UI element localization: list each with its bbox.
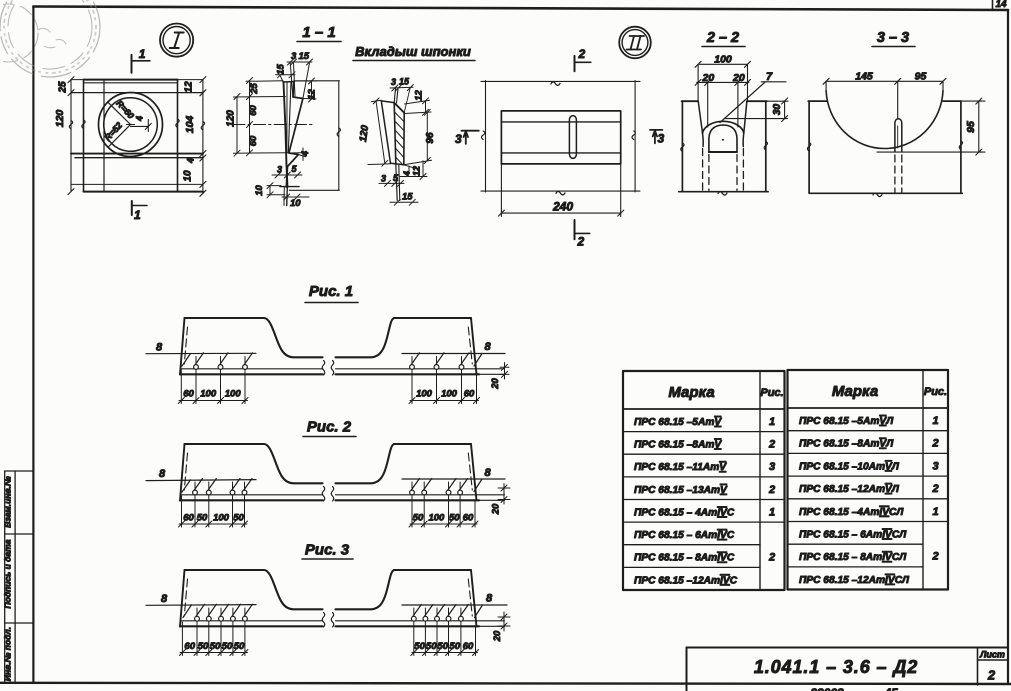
view I marker circle <box>160 23 193 56</box>
section cut mark 2 top <box>575 56 591 71</box>
svg-text:20: 20 <box>702 72 715 84</box>
svg-text:Лист: Лист <box>979 650 1005 660</box>
svg-text:1: 1 <box>134 208 141 222</box>
svg-text:3: 3 <box>381 174 386 184</box>
svg-text:Рис.: Рис. <box>924 386 947 398</box>
svg-text:30: 30 <box>772 104 783 116</box>
svg-text:8: 8 <box>485 341 492 353</box>
section cut mark 1 top <box>132 55 150 73</box>
left dim 25 60 60 of 1-1 <box>234 78 289 156</box>
svg-text:4: 4 <box>300 151 310 157</box>
svg-text:1: 1 <box>932 415 938 427</box>
svg-text:60: 60 <box>464 389 475 400</box>
svg-text:50: 50 <box>426 641 437 652</box>
svg-text:4: 4 <box>186 158 196 164</box>
right table grid <box>788 370 949 590</box>
svg-text:3 – 3: 3 – 3 <box>877 30 909 46</box>
Рис.1 right rebar circles <box>410 353 482 370</box>
svg-text:Инв.№ подл.: Инв.№ подл. <box>3 627 13 681</box>
dim 12 lower right of insert <box>400 161 427 180</box>
svg-text:100: 100 <box>213 513 230 524</box>
bottom dims 3 5 of 1-1 <box>272 172 302 178</box>
Рис.2 right leader 8 <box>402 478 505 480</box>
svg-text:15: 15 <box>299 51 310 62</box>
svg-text:1 – 1: 1 – 1 <box>302 24 335 41</box>
svg-text:50: 50 <box>449 641 460 652</box>
svg-text:3: 3 <box>291 51 297 62</box>
svg-text:2: 2 <box>768 439 775 451</box>
svg-text:100: 100 <box>714 54 732 66</box>
hole circles R60 R52 <box>99 93 163 157</box>
svg-text:10: 10 <box>290 198 301 209</box>
svg-text:240: 240 <box>552 200 573 214</box>
svg-text:ПРС 68.15 –5АтV: ПРС 68.15 –5АтV <box>634 417 722 428</box>
right table rows <box>799 415 939 586</box>
svg-text:Вкладыш шпонки: Вкладыш шпонки <box>355 44 471 59</box>
svg-text:8: 8 <box>486 593 493 605</box>
Рис.2 right dims 50 100 50 60 <box>409 482 478 527</box>
svg-text:3: 3 <box>658 132 665 146</box>
Рис.1 slab outline <box>180 318 505 375</box>
svg-text:120: 120 <box>358 124 371 142</box>
svg-text:104: 104 <box>184 116 196 134</box>
break marks on plate edges <box>69 119 204 130</box>
svg-text:20: 20 <box>492 630 503 642</box>
svg-text:ПРС 68.15 –8АтVЛ: ПРС 68.15 –8АтVЛ <box>799 439 894 450</box>
leader 7 of 2-2 <box>720 82 786 123</box>
Рис.3 right rebar circles <box>411 605 482 622</box>
svg-text:50: 50 <box>210 641 221 652</box>
dim 95 right of 3-3 <box>961 98 985 155</box>
Рис.3 slab outline <box>180 570 505 627</box>
dim 15 bottom of insert <box>390 199 418 205</box>
svg-text:14: 14 <box>995 0 1007 10</box>
Рис.1 left rebar circles <box>182 353 253 370</box>
svg-text:50: 50 <box>222 641 233 652</box>
left table grid <box>623 371 785 590</box>
Рис.3 right dims 50 50 50 50 60 <box>411 608 479 656</box>
svg-text:95: 95 <box>965 121 977 133</box>
svg-text:12: 12 <box>414 90 425 101</box>
svg-text:2: 2 <box>931 483 938 495</box>
centerline 1-1 <box>233 124 312 126</box>
svg-text:Марка: Марка <box>668 384 714 401</box>
svg-text:8: 8 <box>159 468 166 480</box>
svg-text:50: 50 <box>198 641 209 652</box>
section cut mark 2 bottom <box>575 220 590 239</box>
svg-text:ПРС 68.15 –12АтIVС: ПРС 68.15 –12АтIVС <box>634 575 738 586</box>
Рис.3 left leader 8 <box>146 604 256 607</box>
svg-text:ПРС 68.15 – 6АтIVС: ПРС 68.15 – 6АтIVС <box>634 530 735 541</box>
svg-text:1: 1 <box>139 47 146 61</box>
svg-text:Рис. 2: Рис. 2 <box>307 419 352 436</box>
svg-text:3: 3 <box>769 461 775 473</box>
svg-text:50: 50 <box>414 641 425 652</box>
svg-text:ПРС 68.15 –8АтV: ПРС 68.15 –8АтV <box>634 440 722 451</box>
svg-text:ПРС 68.15 – 8АтIVСЛ: ПРС 68.15 – 8АтIVСЛ <box>799 552 907 563</box>
svg-text:60: 60 <box>248 105 259 116</box>
svg-text:Рис. 3: Рис. 3 <box>305 542 350 559</box>
svg-text:60: 60 <box>463 641 474 652</box>
svg-text:95: 95 <box>915 71 927 83</box>
svg-text:1: 1 <box>769 416 775 428</box>
svg-text:Рис. 1: Рис. 1 <box>309 283 353 300</box>
svg-text:2 – 2: 2 – 2 <box>706 30 739 46</box>
corner stamp (faint seal) <box>0 0 100 77</box>
mini dim 4 at hole center <box>127 120 152 132</box>
svg-text:100: 100 <box>200 389 217 400</box>
plate of view II <box>501 111 620 164</box>
dim 120 of insert <box>368 98 391 166</box>
Рис.3 dim 20 right <box>498 612 510 631</box>
svg-text:2: 2 <box>931 438 938 450</box>
svg-text:60: 60 <box>463 513 474 524</box>
section cut mark 1 bottom <box>132 201 147 215</box>
top dims 145 95 of 3-3 <box>823 78 946 118</box>
svg-text:Подпись и дата: Подпись и дата <box>3 539 13 608</box>
svg-text:8: 8 <box>485 467 492 479</box>
Рис.1 left leader 8 <box>146 352 256 354</box>
svg-text:ПРС 68.15 –10АтVЛ: ПРС 68.15 –10АтVЛ <box>799 461 900 472</box>
left dim 10 of 1-1 <box>267 183 285 198</box>
right dim line 12 104 4 10 <box>200 77 206 197</box>
svg-text:12: 12 <box>184 81 195 93</box>
dim 12 right top of insert <box>405 98 432 116</box>
section cut mark 3 left <box>462 131 479 144</box>
Рис.1 right leader 8 <box>402 353 505 355</box>
Рис.2 left rebar circles <box>182 479 252 495</box>
bowl recess of 3-3 <box>826 91 943 149</box>
svg-text:1: 1 <box>769 507 775 519</box>
svg-text:2: 2 <box>577 235 585 249</box>
Рис.1 left dims 60 100 100 <box>178 357 248 404</box>
svg-text:7: 7 <box>766 71 773 83</box>
bowl bottom line of 3-3 <box>877 151 985 153</box>
svg-text:1: 1 <box>932 506 938 518</box>
section 1-1 profile <box>280 82 303 206</box>
svg-text:8: 8 <box>156 342 163 354</box>
svg-text:R=52: R=52 <box>102 120 124 143</box>
svg-text:120: 120 <box>54 110 66 128</box>
dim 4 small of insert <box>404 165 418 174</box>
right dim 12 of 1-1 <box>295 78 317 102</box>
Рис.3 right leader 8 <box>402 604 507 606</box>
svg-text:50: 50 <box>197 513 208 524</box>
outer extent lines of view II <box>481 81 640 195</box>
svg-text:20: 20 <box>732 72 745 84</box>
svg-text:100: 100 <box>441 389 458 400</box>
slot of 3-3 <box>895 119 902 152</box>
svg-text:100: 100 <box>225 389 242 400</box>
svg-text:50: 50 <box>413 513 424 524</box>
bottom dim 10 of 1-1 <box>282 194 309 200</box>
svg-text:Марка: Марка <box>832 383 878 400</box>
svg-text:15: 15 <box>399 77 410 87</box>
dim 240 of view II <box>498 164 623 217</box>
svg-text:2: 2 <box>578 47 586 61</box>
dims 20 20 of 2-2 <box>695 79 750 127</box>
svg-text:120: 120 <box>226 110 237 127</box>
svg-text:60: 60 <box>184 641 195 652</box>
wedge hatching <box>394 104 404 165</box>
svg-text:2: 2 <box>931 551 938 563</box>
top-right sheet number cell <box>993 0 1007 10</box>
hidden lines of 3-3 <box>895 155 902 192</box>
svg-text:100: 100 <box>428 513 445 524</box>
wedge body <box>381 89 404 201</box>
svg-text:12: 12 <box>412 166 422 176</box>
svg-text:5: 5 <box>393 173 399 183</box>
plate plan outline <box>71 80 203 192</box>
keyway slot of view II <box>569 116 576 159</box>
svg-text:60: 60 <box>183 389 194 400</box>
title block box <box>687 648 1009 691</box>
svg-text:3: 3 <box>455 132 462 146</box>
view II marker circle <box>619 27 651 59</box>
svg-text:4: 4 <box>135 116 145 122</box>
svg-text:100: 100 <box>416 389 433 400</box>
dim 100 of 2-2 <box>695 61 750 101</box>
keyway arch of 2-2 <box>703 121 744 152</box>
svg-text:ПРС 68.15 – 8АтIVС: ПРС 68.15 – 8АтIVС <box>634 553 735 564</box>
Рис.2 left leader 8 <box>146 480 256 481</box>
svg-text:ПРС 68.15 – 6АтIVСЛ: ПРС 68.15 – 6АтIVСЛ <box>799 530 907 541</box>
svg-text:3: 3 <box>277 165 282 175</box>
Рис.3 left rebar circles <box>183 604 252 621</box>
svg-text:25: 25 <box>58 81 69 94</box>
svg-text:20: 20 <box>491 503 502 515</box>
Рис.1 right dims 100 100 60 <box>409 357 480 404</box>
svg-text:ПРС 68.15 –13АтV: ПРС 68.15 –13АтV <box>634 485 728 496</box>
hidden lines of 2-2 <box>703 149 744 191</box>
svg-text:ПРС 68.15 –11АтV: ПРС 68.15 –11АтV <box>634 462 727 473</box>
svg-text:10: 10 <box>254 185 265 196</box>
Рис.2 right rebar circles <box>410 479 482 495</box>
svg-text:ПРС 68.15 –12АтVЛ: ПРС 68.15 –12АтVЛ <box>799 484 900 495</box>
dims 3 5 bottom of insert <box>379 180 404 186</box>
svg-text:20: 20 <box>490 378 501 390</box>
left dim 120 of 1-1 <box>234 94 240 157</box>
svg-text:4: 4 <box>402 171 412 177</box>
dim 30 of 2-2 <box>726 98 789 122</box>
svg-text:12: 12 <box>307 89 318 100</box>
dims 3 15 top of insert <box>390 85 413 113</box>
svg-text:50: 50 <box>449 513 460 524</box>
left dim line 25 120 <box>68 77 74 195</box>
svg-text:23002: 23002 <box>809 686 844 691</box>
section cut mark 3 right <box>650 130 662 143</box>
Рис.3 left dims 60 50 50 50 50 <box>179 608 248 656</box>
svg-text:60: 60 <box>183 513 194 524</box>
right dim 4 of 1-1 <box>289 148 306 161</box>
Рис.1 dim 20 right <box>500 363 509 380</box>
top dims 3 15 of 1-1 <box>287 59 313 98</box>
Рис.2 slab outline <box>180 444 505 501</box>
svg-text:50: 50 <box>233 513 244 524</box>
svg-text:3: 3 <box>391 77 396 87</box>
svg-text:5: 5 <box>292 164 298 174</box>
svg-text:2: 2 <box>768 484 775 496</box>
break marks of 2-2 <box>681 142 768 152</box>
svg-text:2: 2 <box>768 552 775 564</box>
svg-text:50: 50 <box>437 641 448 652</box>
svg-text:96: 96 <box>425 132 436 144</box>
svg-text:45: 45 <box>883 686 898 691</box>
Рис.2 dim 20 right <box>498 484 510 505</box>
svg-text:25: 25 <box>249 83 260 95</box>
svg-text:2: 2 <box>987 668 996 683</box>
svg-text:ПРС 68.15 –5АтVЛ: ПРС 68.15 –5АтVЛ <box>799 416 894 427</box>
svg-text:10: 10 <box>183 170 194 182</box>
section 2-2 body <box>679 101 768 195</box>
dim 96 right of insert <box>404 109 432 165</box>
svg-text:Рис.: Рис. <box>760 387 783 399</box>
svg-text:8: 8 <box>161 593 168 605</box>
svg-text:15: 15 <box>402 192 413 203</box>
top rotated dim 15 of 1-1 <box>276 72 296 83</box>
left table rows <box>634 416 775 586</box>
svg-text:3: 3 <box>932 460 938 472</box>
break marks of 3-3 <box>807 141 962 151</box>
svg-text:R=60: R=60 <box>114 98 136 120</box>
svg-text:ПРС 68.15 –4АтIVСЛ: ПРС 68.15 –4АтIVСЛ <box>799 507 904 518</box>
right extension bracket of 1-1 <box>289 81 340 191</box>
svg-text:15: 15 <box>276 64 287 75</box>
svg-text:Взам.инв.№: Взам.инв.№ <box>3 476 13 528</box>
svg-text:ПРС 68.15 –12АтIVСЛ: ПРС 68.15 –12АтIVСЛ <box>799 575 910 586</box>
svg-text:ПРС 68.15 – 4АтIVС: ПРС 68.15 – 4АтIVС <box>634 508 735 519</box>
left margin info strip <box>5 471 34 683</box>
Рис.2 left dims 60 50 100 50 <box>179 482 248 527</box>
svg-text:145: 145 <box>855 71 873 83</box>
section 3-3 body <box>808 101 962 197</box>
svg-text:50: 50 <box>234 641 245 652</box>
svg-text:60: 60 <box>248 135 259 146</box>
svg-text:1.041.1 – 3.6 – Д2: 1.041.1 – 3.6 – Д2 <box>754 657 918 677</box>
